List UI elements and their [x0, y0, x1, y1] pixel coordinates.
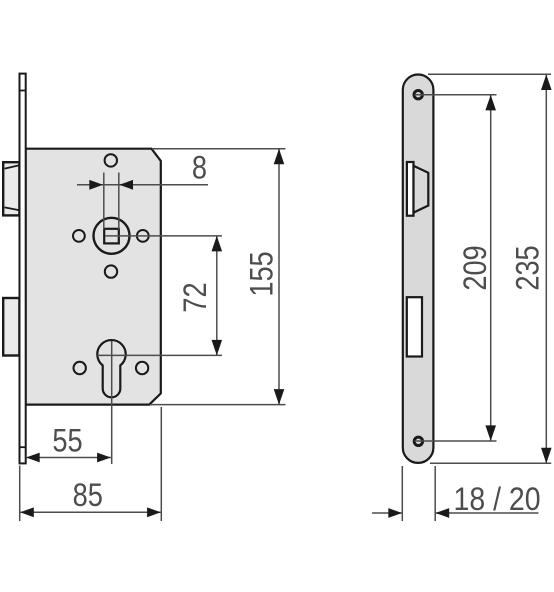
- faceplate (edge view): [20, 74, 26, 464]
- bottom screw hole: [414, 437, 422, 445]
- lock case body: [26, 149, 161, 405]
- top hole: [105, 154, 117, 166]
- dim 55: right-pointing arrowhead: [97, 453, 111, 463]
- side hole left of hub: [73, 230, 85, 242]
- dim 8: left-pointing arrowhead: [119, 180, 133, 190]
- side hole left of cylinder: [74, 362, 86, 374]
- svg-text:55: 55: [52, 423, 82, 459]
- dim 85: right-pointing arrowhead: [147, 507, 161, 517]
- svg-text:235: 235: [510, 245, 546, 290]
- dim 55: dimension line: [26, 457, 111, 459]
- dim 18/20: right extension line: [434, 466, 436, 521]
- dim 18/20: left dimension line: [372, 512, 402, 514]
- dim 85: left-pointing arrowhead: [20, 507, 34, 517]
- dim 155: top extension line: [152, 148, 286, 150]
- dim 155: bottom extension line: [150, 404, 286, 406]
- latch bolt (edge view): [3, 162, 19, 215]
- side hole right of cylinder: [136, 362, 148, 374]
- svg-text:85: 85: [73, 478, 103, 514]
- cylinder axis extension line: [111, 341, 113, 464]
- dim 85: right extension line: [160, 407, 162, 521]
- follower hub circle: [94, 218, 130, 254]
- dim 209: down arrowhead: [485, 425, 496, 441]
- latch bolt head (front view): [414, 166, 429, 213]
- dim 18/20: right-pointing arrowhead: [388, 508, 402, 518]
- hole below hub: [105, 265, 117, 277]
- svg-text:155: 155: [244, 251, 280, 296]
- deadbolt opening (front view): [407, 297, 422, 356]
- svg-text:8: 8: [192, 150, 207, 186]
- side hole right of hub: [137, 230, 149, 242]
- euro profile cylinder hole: [97, 340, 125, 397]
- dim 85: left extension line: [19, 466, 21, 522]
- dim 155: up arrowhead: [274, 149, 285, 165]
- dim 18/20: left extension line: [401, 466, 403, 521]
- dim 55: left-pointing arrowhead: [26, 453, 40, 463]
- svg-text:209: 209: [458, 245, 494, 290]
- dim 8: extension line right: [118, 173, 120, 230]
- top screw hole: [414, 91, 422, 99]
- latch opening (front view): [407, 162, 414, 216]
- dim 72: up arrowhead: [212, 236, 223, 252]
- dim 8: dimension line: [77, 184, 208, 186]
- dim 155: down arrowhead: [274, 389, 285, 405]
- faceplate (front view): [403, 75, 434, 463]
- svg-text:72: 72: [178, 282, 214, 312]
- svg-text:18 / 20: 18 / 20: [454, 483, 541, 518]
- square spindle hole: [104, 229, 119, 244]
- dim 209: dimension line: [490, 95, 492, 441]
- dim 72: top extension line: [106, 235, 223, 237]
- dim 209: bottom extension line: [415, 440, 497, 442]
- dim 235: bottom extension line: [430, 462, 551, 464]
- dim 235: up arrowhead: [541, 75, 552, 91]
- dim 72: down arrowhead: [212, 340, 223, 356]
- dim 155: dimension line: [278, 149, 280, 405]
- dim 8: right-pointing arrowhead: [89, 180, 103, 190]
- dim 235: top extension line: [428, 73, 551, 75]
- dim 235: down arrowhead: [541, 448, 552, 464]
- dim 18/20: right dimension line: [436, 512, 539, 514]
- dim 85: dimension line: [20, 511, 161, 513]
- dim 72: dimension line: [216, 236, 218, 356]
- dim 209: top extension line: [415, 94, 497, 96]
- dim 72: bottom extension line: [97, 354, 222, 356]
- dim 209: up arrowhead: [485, 95, 496, 111]
- dim 8: extension line left: [103, 173, 105, 230]
- dim 18/20: left-pointing arrowhead: [436, 508, 450, 518]
- dim 235: dimension line: [545, 75, 547, 464]
- deadbolt (edge view): [3, 298, 19, 356]
